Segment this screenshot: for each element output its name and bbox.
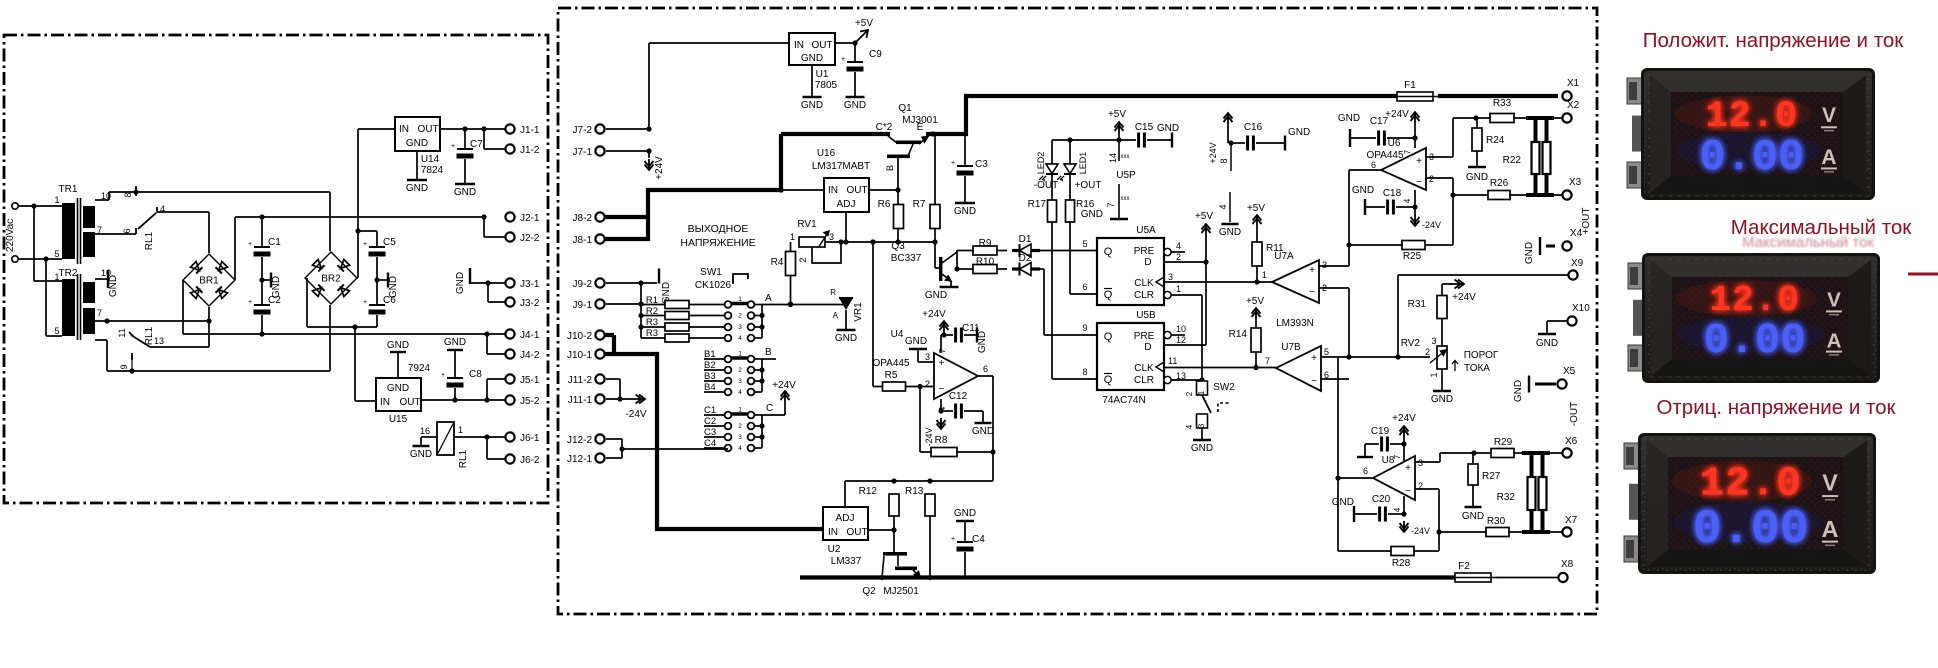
svg-text:Положит. напряжение и ток: Положит. напряжение и ток [1643, 29, 1905, 52]
svg-text:9: 9 [1082, 323, 1087, 333]
svg-text:+24V: +24V [1452, 292, 1476, 303]
svg-text:+: + [951, 160, 955, 167]
regulator U2 LM337 [823, 507, 868, 567]
resistor R8 feedback of U4 [920, 387, 996, 457]
wire J12 to SW1 C4 [622, 448, 728, 450]
connector J7-2 [573, 124, 652, 136]
svg-text:ADJ: ADJ [836, 513, 855, 524]
svg-text:R14: R14 [1229, 329, 1248, 340]
trimmer RV2 [1401, 336, 1447, 391]
svg-text:C20: C20 [1372, 494, 1391, 505]
svg-text:5: 5 [54, 326, 59, 336]
svg-text:J11-1: J11-1 [568, 395, 593, 406]
connector J6-2 [505, 454, 539, 466]
svg-text:1: 1 [54, 272, 59, 282]
resistor R4 [771, 242, 796, 307]
connector J5-2 [505, 395, 539, 407]
fuse F2 [1449, 561, 1497, 582]
svg-text:R28: R28 [1392, 558, 1411, 569]
svg-text:X3: X3 [1569, 177, 1582, 188]
svg-text:5: 5 [1082, 239, 1087, 249]
svg-text:J5-1: J5-1 [520, 375, 540, 386]
transistor Q1 MJ3001 [876, 103, 939, 204]
svg-text:R31: R31 [1408, 299, 1427, 310]
svg-text:V: V [1827, 289, 1841, 312]
svg-text:R17: R17 [1028, 199, 1047, 210]
svg-text:+5V: +5V [1108, 109, 1126, 120]
+24V arrow for U4 pin7 [922, 309, 948, 353]
svg-text:14: 14 [1108, 153, 1118, 163]
transformer TR2 [54, 268, 111, 340]
ground of VR1 [835, 330, 857, 344]
thick wire from J8 to U16 IN [646, 134, 783, 241]
svg-text:12: 12 [1176, 335, 1186, 345]
svg-text:4: 4 [1218, 204, 1228, 209]
svg-text:GND: GND [1338, 113, 1360, 124]
comparator U7B [1265, 342, 1329, 391]
svg-text:3: 3 [738, 324, 742, 331]
svg-text:CLK: CLK [1134, 278, 1154, 289]
wire U7A pin2 to wiper node [1319, 288, 1352, 360]
ground of RV2 [1431, 391, 1453, 405]
connector J2-2 [505, 232, 539, 244]
resistor R2 [641, 306, 724, 320]
svg-text:12.0: 12.0 [1700, 462, 1802, 508]
svg-text:1: 1 [458, 425, 463, 435]
svg-text:1: 1 [790, 232, 795, 242]
svg-text:X7: X7 [1565, 515, 1578, 526]
svg-text:-24V: -24V [625, 409, 646, 420]
svg-text:-OUT: -OUT [1569, 402, 1580, 426]
svg-text:R12: R12 [859, 486, 878, 497]
svg-text:GND: GND [1288, 127, 1310, 138]
wire U15 OUT to J5 [421, 379, 505, 403]
svg-text:GND: GND [108, 275, 119, 297]
svg-text:~: ~ [64, 232, 71, 236]
svg-text:LM317MABT: LM317MABT [812, 161, 870, 172]
svg-text:R24: R24 [1486, 135, 1505, 146]
svg-text:J12-2: J12-2 [567, 435, 592, 446]
svg-text:−: − [1405, 486, 1411, 497]
svg-text:IN: IN [828, 527, 838, 538]
main dash-dot border box (regulator section) [558, 8, 1597, 614]
svg-text:X1: X1 [1567, 78, 1580, 89]
svg-text:+: + [1309, 265, 1315, 276]
svg-text:J5-2: J5-2 [520, 396, 540, 407]
ground of C3 [954, 203, 976, 217]
power stub U7 pin8 +24V [1208, 113, 1234, 171]
svg-text:4: 4 [1185, 424, 1194, 429]
svg-text:4: 4 [1403, 198, 1412, 203]
svg-text:F2: F2 [1458, 561, 1470, 572]
svg-text:+OUT: +OUT [1075, 180, 1102, 191]
svg-text:R32: R32 [1497, 492, 1516, 503]
svg-text:RL1: RL1 [458, 449, 469, 468]
capacitor C19 [1357, 426, 1407, 457]
svg-text:Q2: Q2 [862, 586, 876, 597]
wire relay to J6 [454, 434, 505, 459]
wire U6 pin2 feedback [1426, 178, 1456, 245]
svg-text:GND: GND [455, 272, 466, 294]
svg-text:MJ2501: MJ2501 [883, 586, 919, 597]
svg-text:GND: GND [977, 331, 988, 353]
svg-text:~: ~ [64, 308, 71, 312]
svg-text:A: A [1821, 146, 1836, 169]
svg-text:2: 2 [798, 257, 808, 262]
svg-text:4: 4 [738, 389, 742, 396]
capacitor C17 [1370, 116, 1415, 146]
svg-text:X6: X6 [1565, 436, 1578, 447]
svg-text:+: + [441, 372, 445, 379]
thick wires J8 to bus [605, 217, 650, 239]
svg-text:0.00: 0.00 [1693, 502, 1809, 557]
svg-text:X8: X8 [1561, 559, 1574, 570]
wire U5A CLR pin1 to SW2 [1171, 295, 1202, 381]
ground of C17 [1338, 113, 1376, 147]
op-amp U6 OPA445 [1366, 138, 1434, 203]
wire BR2 + output to U14 IN and C5 [355, 129, 395, 278]
svg-text:R4: R4 [771, 257, 784, 268]
svg-text:2: 2 [1176, 252, 1181, 262]
svg-text:A: A [1827, 330, 1842, 353]
svg-text:X5: X5 [1563, 366, 1576, 377]
svg-text:3: 3 [829, 232, 834, 242]
svg-text:0.00: 0.00 [1699, 134, 1804, 183]
svg-text:U7B: U7B [1281, 342, 1301, 353]
resistor R3 second [646, 328, 724, 342]
svg-text:−: − [1311, 376, 1317, 387]
svg-text:BR2: BR2 [321, 274, 341, 285]
svg-text:8: 8 [1082, 367, 1087, 377]
svg-text:GND: GND [410, 449, 432, 460]
svg-text:7: 7 [938, 348, 947, 353]
shunt resistor R32 (parallel pair) [1497, 453, 1550, 532]
svg-text:6: 6 [1371, 160, 1376, 170]
svg-text:13: 13 [154, 336, 164, 346]
svg-text:IN: IN [828, 185, 838, 196]
AC input terminals 220Vac [5, 203, 18, 262]
svg-text:1: 1 [54, 195, 59, 205]
svg-text:A: A [1822, 516, 1839, 542]
svg-text:+: + [841, 56, 845, 63]
svg-text:GND: GND [905, 336, 927, 347]
svg-text:6: 6 [122, 228, 132, 233]
svg-text:xxx: xxx [1121, 154, 1130, 160]
resistor R10 [957, 257, 1007, 274]
bridge rectifier BR1 [183, 254, 235, 306]
svg-text:X10: X10 [1572, 303, 1590, 314]
svg-text:J10-1: J10-1 [567, 350, 592, 361]
capacitor C16 [1231, 122, 1285, 151]
red artifact line top right [1908, 273, 1938, 276]
svg-text:GND: GND [1466, 172, 1488, 183]
-OUT label right [1569, 402, 1580, 426]
svg-text:GND: GND [388, 276, 399, 298]
flip-flop U5A 74AC74 [1097, 225, 1185, 305]
connector X2 [1514, 100, 1580, 123]
wire +5V LED rail [1052, 109, 1126, 143]
connector J11-2 [568, 374, 620, 399]
connector J10-1 [567, 349, 605, 361]
svg-text:1: 1 [738, 296, 742, 303]
ground of C9 [844, 97, 866, 111]
svg-text:R5: R5 [885, 370, 898, 381]
svg-text:B: B [885, 165, 895, 171]
svg-text:8: 8 [123, 192, 133, 197]
ground of U1 [801, 65, 823, 111]
svg-text:GND: GND [1191, 443, 1213, 454]
wire AC return rail to BR2 bottom [329, 305, 331, 371]
wire ADJ row to Q3 base [935, 242, 939, 268]
resistor R31 [1408, 284, 1452, 346]
resistor R7 [913, 134, 940, 245]
svg-text:7: 7 [97, 308, 102, 318]
svg-text:GND: GND [1513, 380, 1524, 402]
svg-text:Q: Q [1104, 331, 1113, 343]
svg-text:C4: C4 [972, 534, 985, 545]
svg-text:C16: C16 [1244, 122, 1263, 133]
svg-text:C12: C12 [949, 391, 968, 402]
resistor R12 [859, 486, 899, 533]
svg-text:2: 2 [1425, 347, 1430, 357]
ground of U14 [406, 151, 428, 194]
svg-text:U16: U16 [817, 148, 836, 159]
svg-text:3: 3 [1322, 260, 1327, 270]
thick bus F1 to X1 [1438, 94, 1558, 98]
svg-text:GND: GND [1536, 338, 1558, 349]
svg-text:J1-2: J1-2 [520, 145, 540, 156]
connector X1 [1562, 78, 1579, 101]
transformer TR1 [54, 184, 111, 264]
svg-text:R25: R25 [1403, 251, 1422, 262]
svg-text:RL1: RL1 [144, 231, 155, 250]
svg-text:R8: R8 [935, 435, 948, 446]
svg-text:B: B [765, 347, 772, 358]
svg-text:J10-2: J10-2 [567, 331, 592, 342]
svg-text:3: 3 [1197, 423, 1206, 428]
svg-text:1: 1 [1429, 372, 1439, 377]
wire U5A D to +5V [1164, 211, 1213, 265]
shunt reference VR1 TL431 [830, 288, 864, 330]
svg-text:10: 10 [1176, 324, 1186, 334]
ghost caption artifact [1742, 234, 1874, 251]
svg-text:+: + [1416, 156, 1422, 167]
svg-text:CLR: CLR [1134, 375, 1154, 386]
+24V arrow for SW1 C common [762, 380, 796, 415]
svg-text:12.0: 12.0 [1709, 280, 1800, 321]
wire +5V D line to U5B pin12 [1164, 262, 1206, 345]
wire contact8 to BR2 top AC input [136, 192, 330, 251]
svg-text:−: − [939, 384, 945, 395]
bridge rectifier BR2 [305, 252, 357, 304]
svg-text:GND: GND [801, 53, 823, 64]
svg-text:D1: D1 [1019, 234, 1032, 245]
ground of R27 [1462, 507, 1484, 522]
power stub U7 pin4 GND [1218, 192, 1241, 238]
svg-text:+: + [363, 241, 367, 248]
ground of U4 pin3 [905, 336, 934, 362]
svg-text:J6-1: J6-1 [520, 433, 540, 444]
svg-text:RV1: RV1 [797, 219, 817, 230]
capacitor C4 [951, 508, 985, 578]
ground between C5 C6 [374, 273, 399, 299]
svg-text:GND: GND [444, 337, 466, 348]
svg-text:5: 5 [54, 249, 59, 259]
wire BR2 - output to U15 IN [307, 278, 377, 401]
svg-text:3: 3 [1168, 272, 1173, 282]
svg-text:+5V: +5V [1246, 296, 1264, 307]
svg-text:A: A [765, 293, 772, 304]
resistor R30 [1439, 516, 1562, 537]
svg-text:C: C [766, 403, 773, 414]
wire Q3 collector to R9 R10 [954, 250, 959, 272]
svg-text:LED2: LED2 [1036, 152, 1046, 175]
wire X2 node to U6 pin3 [1426, 118, 1476, 157]
ground of C7 [454, 184, 476, 198]
svg-text:3: 3 [925, 352, 930, 362]
regulator U14 7824 [395, 117, 444, 176]
svg-text:U5P: U5P [1116, 170, 1136, 181]
svg-text:2: 2 [1429, 174, 1434, 184]
svg-text:LED1: LED1 [1078, 152, 1088, 175]
wire TR2 pin7 to BR1 bottom node [95, 318, 212, 323]
svg-text:R22: R22 [1503, 155, 1522, 166]
svg-text:2: 2 [925, 379, 930, 389]
capacitor C6 [363, 280, 396, 327]
LM393N label [1276, 318, 1314, 329]
svg-text:A: A [833, 311, 839, 320]
regulator U16 LM317MABT [812, 148, 870, 212]
svg-text:5: 5 [1324, 347, 1329, 357]
shunt resistor R22 (parallel pair) [1503, 118, 1554, 195]
svg-text:R33: R33 [1493, 98, 1512, 109]
fuse F1 [1391, 80, 1439, 101]
resistor R24 [1472, 118, 1505, 167]
wire U7B pin5 node to U8 output [1335, 357, 1373, 551]
resistor R3 [641, 317, 724, 331]
svg-text:GND: GND [1081, 209, 1103, 220]
svg-text:SW1: SW1 [700, 267, 722, 278]
U5P power stub pin14 [1108, 140, 1130, 163]
-24V for U6 pin4 [1411, 207, 1442, 230]
svg-text:+: + [951, 536, 955, 543]
svg-text:3: 3 [738, 378, 742, 385]
capacitor C20 [1354, 494, 1407, 522]
svg-text:E: E [917, 122, 924, 133]
svg-text:НАПРЯЖЕНИЕ: НАПРЯЖЕНИЕ [680, 237, 755, 249]
svg-text:U14: U14 [421, 154, 440, 165]
svg-text:GND: GND [844, 100, 866, 111]
wire contact4 to BR1 top AC input [157, 212, 209, 253]
resistor R9 [957, 238, 1007, 255]
svg-text:V: V [1822, 104, 1836, 127]
svg-text:IN: IN [794, 40, 804, 51]
svg-text:1: 1 [1262, 270, 1267, 280]
connector J12-2 [567, 434, 622, 449]
connector J7-1 [573, 146, 652, 158]
svg-text:J2-2: J2-2 [520, 233, 540, 244]
svg-text:SW2: SW2 [1213, 382, 1235, 393]
svg-text:IN: IN [380, 397, 390, 408]
svg-text:4: 4 [738, 335, 742, 342]
svg-text:R30: R30 [1487, 516, 1506, 527]
svg-text:R6: R6 [878, 199, 891, 210]
svg-text:+24V: +24V [772, 380, 796, 391]
svg-text:7805: 7805 [815, 80, 838, 91]
+OUT label [1075, 180, 1102, 191]
svg-text:GND: GND [1332, 497, 1354, 508]
svg-text:+24V: +24V [1208, 142, 1218, 163]
relay RL1 upper contacts 8/6/4 [95, 186, 165, 250]
svg-text:GND: GND [387, 340, 409, 351]
svg-text:Q: Q [1104, 289, 1113, 301]
connector J5-1 [505, 374, 539, 386]
svg-text:LM337: LM337 [831, 556, 862, 567]
capacitor C3 [951, 134, 988, 203]
svg-text:ПОРОГ: ПОРОГ [1464, 350, 1499, 361]
svg-text:GND: GND [1157, 123, 1179, 134]
thick -OUT bottom bus to fuse F2 [800, 575, 1455, 579]
connector J2-1 [484, 212, 540, 237]
switch SW1 CK1026 label [695, 267, 748, 291]
connector J8-2 [573, 212, 605, 224]
ground of U15 [387, 340, 409, 378]
svg-text:GND: GND [1462, 511, 1484, 522]
thick +OUT top bus to fuse F1 [964, 94, 1397, 98]
LED2 [1036, 140, 1058, 182]
regulator U1 7805 [789, 33, 838, 91]
connector J12-1 [567, 446, 625, 465]
svg-text:IN: IN [399, 124, 409, 135]
svg-text:J11-2: J11-2 [568, 375, 593, 386]
svg-text:J8-2: J8-2 [573, 213, 593, 224]
wire U4 out to R12 R13 row [845, 478, 993, 507]
-24V for U8 pin4 [1393, 496, 1430, 536]
svg-text:D: D [1144, 342, 1151, 353]
svg-text:GND: GND [1219, 227, 1241, 238]
wire U8 pin2 feedback [1415, 489, 1442, 551]
+24V arrow at R31 [1450, 280, 1476, 304]
connector J9-1 [573, 299, 641, 311]
svg-text:GND: GND [1352, 185, 1374, 196]
ground of J9-2 [659, 269, 672, 305]
svg-text:+: + [1405, 463, 1411, 474]
thick collector bus wire to Q1 [778, 134, 890, 193]
op-amp U8 OPA445 [1363, 455, 1423, 500]
panel meter photo 3 (negative) [1624, 433, 1876, 574]
wire TR2 bottom to AC return rail [95, 340, 330, 371]
svg-text:F1: F1 [1404, 80, 1416, 91]
output voltage caption [680, 223, 755, 249]
svg-text:BR1: BR1 [199, 276, 219, 287]
svg-text:U6: U6 [1388, 138, 1401, 149]
LED1 [1057, 140, 1088, 182]
wire U6 output to R25 and U7A pin3 [1319, 170, 1381, 266]
connector J10-2 [567, 330, 605, 342]
wire AC line to TR1 pin1 and TR2 pin1 [18, 203, 62, 281]
svg-text:U5B: U5B [1136, 310, 1156, 321]
svg-text:ADJ: ADJ [837, 199, 856, 210]
svg-text:3: 3 [738, 434, 742, 441]
svg-text:GND: GND [954, 508, 976, 519]
connector J3-2 [505, 297, 539, 309]
op-amp U4 OPA445 [872, 329, 988, 411]
rotary switch SW1 bank B [704, 347, 776, 396]
svg-text:U2: U2 [828, 544, 841, 555]
connector X5 with ground [1513, 366, 1576, 402]
svg-text:U4: U4 [891, 329, 904, 340]
svg-text:3: 3 [1429, 152, 1434, 162]
